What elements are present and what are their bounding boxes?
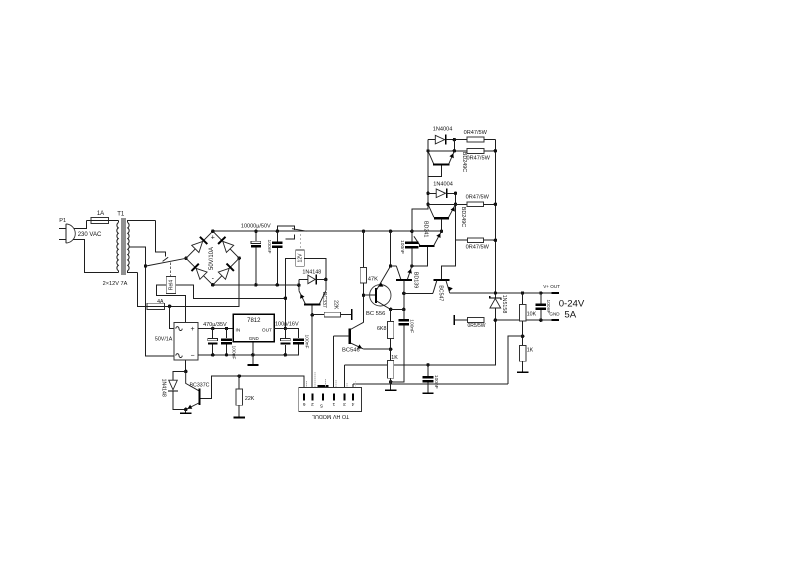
svg-text:10000µ/50V: 10000µ/50V — [241, 224, 271, 230]
svg-text:100nF: 100nF — [399, 240, 405, 254]
svg-text:3: 3 — [343, 401, 346, 407]
svg-text:BC546: BC546 — [342, 347, 360, 353]
svg-text:BC337C: BC337C — [189, 382, 209, 388]
svg-text:5: 5 — [320, 402, 323, 408]
svg-text:OUT: OUT — [262, 327, 272, 333]
svg-text:10K: 10K — [527, 312, 537, 318]
svg-text:0R47/5W: 0R47/5W — [466, 244, 490, 250]
svg-text:0R5/5W: 0R5/5W — [467, 323, 485, 329]
svg-text:−: − — [191, 353, 195, 360]
svg-text:0R47/5W: 0R47/5W — [467, 155, 491, 161]
svg-text:1K: 1K — [391, 355, 398, 361]
svg-text:0R47/5W: 0R47/5W — [466, 195, 490, 201]
svg-text:47K: 47K — [368, 277, 378, 283]
svg-text:100nF: 100nF — [545, 299, 551, 313]
svg-text:100nF: 100nF — [231, 346, 237, 360]
svg-text:1: 1 — [332, 401, 335, 407]
svg-text:1N5158: 1N5158 — [501, 295, 507, 314]
svg-text:7812: 7812 — [247, 318, 261, 324]
svg-text:2: 2 — [311, 401, 314, 407]
svg-text:+: + — [211, 234, 215, 241]
svg-text:P1: P1 — [59, 218, 66, 224]
svg-text:1N4004: 1N4004 — [433, 126, 453, 132]
svg-text:4: 4 — [351, 401, 354, 407]
svg-text:22K: 22K — [245, 396, 255, 402]
svg-text:100nF: 100nF — [408, 319, 414, 333]
svg-text:100nF: 100nF — [304, 335, 310, 349]
svg-text:100µ/16V: 100µ/16V — [275, 321, 299, 327]
svg-text:IN: IN — [236, 327, 241, 333]
svg-text:1N4004: 1N4004 — [433, 182, 453, 188]
svg-text:BD249C: BD249C — [460, 207, 466, 227]
svg-text:1K: 1K — [527, 347, 534, 353]
svg-text:100nF: 100nF — [433, 375, 439, 389]
svg-text:50V/1A: 50V/1A — [155, 337, 173, 343]
svg-text:1A: 1A — [97, 211, 104, 217]
svg-text:BC337: BC337 — [321, 292, 327, 308]
svg-text:BC547: BC547 — [437, 285, 443, 301]
svg-text:470µ/35V: 470µ/35V — [203, 322, 227, 328]
svg-text:T1: T1 — [117, 212, 125, 218]
svg-text:2×12V 7A: 2×12V 7A — [103, 281, 128, 287]
svg-text:230 VAC: 230 VAC — [78, 232, 102, 238]
svg-text:1N4148: 1N4148 — [161, 379, 167, 397]
svg-text:1N4148: 1N4148 — [302, 270, 321, 276]
svg-text:BD139: BD139 — [412, 272, 418, 288]
svg-text:0R47/5W: 0R47/5W — [464, 130, 488, 136]
svg-text:BD249C: BD249C — [461, 152, 467, 172]
svg-text:12V: 12V — [298, 253, 304, 263]
svg-text:BD241: BD241 — [423, 221, 429, 237]
svg-text:22K: 22K — [333, 300, 339, 310]
svg-text:5A: 5A — [564, 309, 576, 320]
svg-text:100nF: 100nF — [266, 240, 272, 254]
svg-text:50V/10A: 50V/10A — [209, 247, 215, 270]
svg-text:6K8: 6K8 — [377, 326, 386, 332]
svg-text:4A: 4A — [157, 299, 164, 305]
svg-text:+: + — [191, 326, 195, 333]
svg-text:6: 6 — [302, 401, 305, 407]
svg-text:GND: GND — [249, 336, 260, 341]
svg-text:BC 556: BC 556 — [366, 311, 385, 317]
svg-text:V+ OUT: V+ OUT — [543, 284, 560, 289]
svg-text:Rel4: Rel4 — [169, 280, 175, 291]
svg-text:0-24V: 0-24V — [559, 298, 585, 309]
svg-text:TO HV MODUL: TO HV MODUL — [312, 413, 349, 419]
